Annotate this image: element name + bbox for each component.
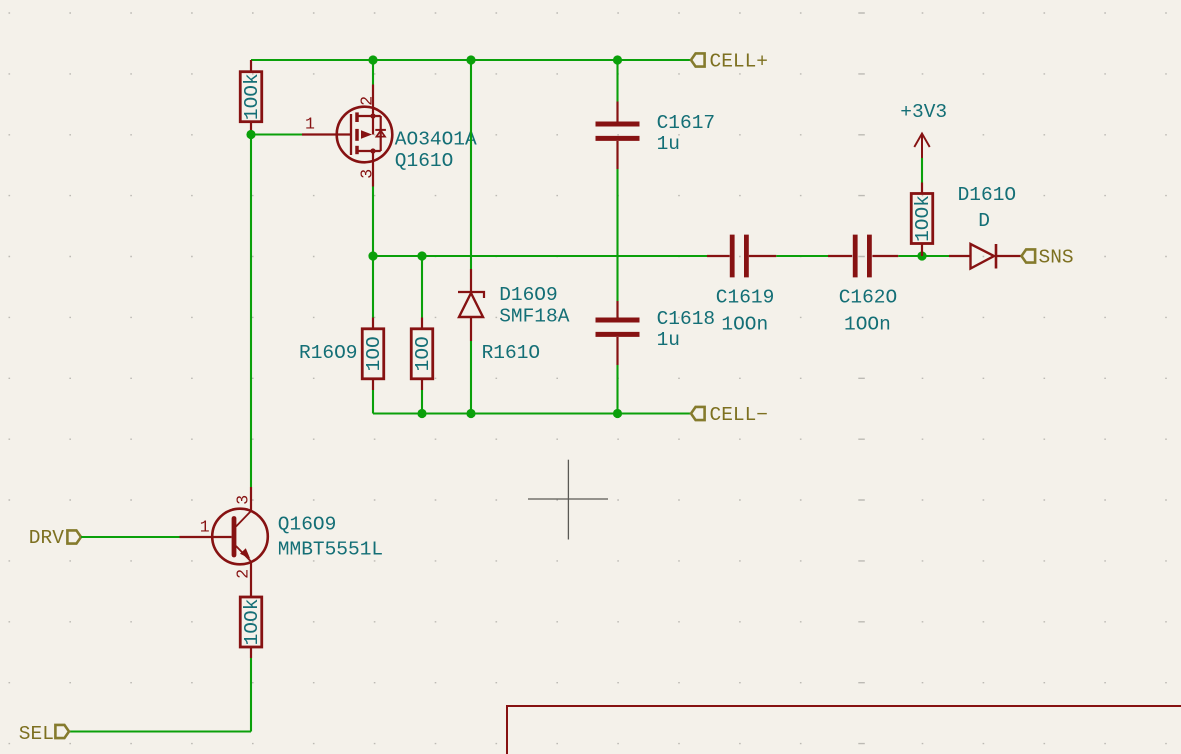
svg-text:+3V3: +3V3 (900, 101, 947, 123)
junction CELL- / D1609 (466, 409, 475, 418)
svg-text:SEL: SEL (19, 723, 54, 745)
pin 2 wire Q1609 (250, 563, 252, 597)
junction top rail / D1609 (466, 55, 475, 64)
svg-text:CELL−: CELL− (710, 404, 769, 426)
svg-text:Q16O9: Q16O9 (278, 514, 337, 536)
pin R1610 bottom (421, 379, 423, 390)
svg-text:1OOk: 1OOk (241, 73, 263, 120)
wire top rail to Q1610 S (372, 60, 374, 85)
pin C1619 left (707, 255, 730, 257)
diode D1609 SMF18A (zener) (458, 292, 484, 317)
cursor crosshair (528, 460, 608, 540)
capacitor C1617 1u (596, 124, 640, 138)
svg-text:AO34O1A: AO34O1A (395, 129, 477, 151)
wire R1609 top (372, 256, 374, 318)
svg-text:3: 3 (358, 169, 377, 179)
pin C1619 right (749, 255, 777, 257)
wire mid rail (373, 255, 707, 257)
pin R 100k top (250, 60, 252, 73)
svg-text:1u: 1u (657, 329, 680, 351)
capacitor C1620 100n (855, 235, 869, 278)
resistor R1609 100 (362, 329, 385, 379)
hier label SNS (1022, 247, 1074, 269)
svg-text:CELL+: CELL+ (710, 51, 769, 73)
power symbol +3V3 (900, 101, 947, 158)
svg-text:3: 3 (233, 495, 252, 505)
capacitor C1618 1u (596, 320, 640, 334)
wire +3V3 to 100k (921, 158, 923, 183)
resistor 100k (emitter) (240, 597, 263, 647)
svg-text:1OOk: 1OOk (241, 599, 263, 646)
wire C1619 to C1620 (776, 255, 828, 257)
svg-text:1u: 1u (657, 133, 680, 155)
pin 3 wire Q1609 (250, 487, 252, 510)
pin R 100k bottom (250, 122, 252, 131)
transistor Q1610 AO3401A (P-MOSFET) (302, 107, 392, 163)
svg-text:1OOn: 1OOn (721, 313, 768, 335)
junction CELL- / R1610 (417, 409, 426, 418)
pin C1620 right (872, 255, 898, 257)
svg-text:C1619: C1619 (716, 286, 775, 308)
pin 3 wire Q1610 (372, 151, 374, 187)
svg-text:C162O: C162O (839, 286, 898, 308)
svg-text:R161O: R161O (482, 342, 541, 364)
pin C1617 bottom (616, 141, 618, 169)
svg-text:2: 2 (358, 96, 377, 106)
pin C1620 left (828, 255, 852, 257)
wire Q1610 D to mid rail (372, 187, 374, 257)
pin R1610 top (421, 318, 423, 330)
pin D1610 cathode (996, 255, 1022, 257)
resistor R1610 100 (411, 329, 434, 379)
wire gate (251, 133, 302, 135)
capacitor C1619 100n (732, 235, 746, 278)
junction mid rail / R1609 (368, 251, 377, 260)
svg-text:1OOn: 1OOn (844, 313, 891, 335)
svg-text:C1618: C1618 (657, 308, 716, 330)
wire DRV to Q1609 base (81, 536, 180, 538)
pin 2 wire Q1610 (372, 85, 374, 114)
pin 100k bottom (921, 244, 923, 257)
wire SEL horizontal (69, 730, 251, 732)
svg-text:MMBT5551L: MMBT5551L (278, 539, 383, 561)
svg-text:C1617: C1617 (657, 112, 716, 134)
junction gate node (246, 130, 255, 139)
transistor Q1609 MMBT5551L (NPN) (212, 509, 268, 565)
pin 1 wire Q1609 (180, 536, 232, 538)
wire C1618 to CELL- rail (616, 365, 618, 414)
pin 100k top (921, 183, 923, 195)
junction CELL- / C1618 (613, 409, 622, 418)
wire CELL+ top rail (251, 59, 691, 61)
pin R1609 bottom (372, 379, 374, 390)
svg-text:1OO: 1OO (412, 336, 434, 371)
wire C1620 to D1610 (898, 255, 949, 257)
hier label DRV (29, 527, 81, 549)
wire top rail to C1617 (616, 60, 618, 102)
svg-text:R16O9: R16O9 (299, 342, 358, 364)
svg-text:2: 2 (233, 569, 252, 579)
wire emitter R to SEL corner (250, 658, 252, 732)
hier label SEL (19, 723, 69, 745)
resistor 100k (top left) (240, 72, 263, 122)
svg-text:D16O9: D16O9 (499, 284, 558, 306)
wire C1617 to C1618 (616, 169, 618, 301)
wire D1609 to CELL- rail (470, 341, 472, 414)
pin D1609 anode (470, 317, 472, 341)
pin R1609 top (372, 318, 374, 330)
svg-text:D161O: D161O (958, 184, 1017, 206)
pin D1610 anode (949, 255, 971, 257)
pin C1617 top (616, 102, 618, 122)
svg-text:DRV: DRV (29, 527, 64, 549)
svg-text:Q161O: Q161O (395, 150, 454, 172)
svg-text:1: 1 (200, 518, 210, 537)
pin C1618 bottom (616, 337, 618, 365)
wire CELL- rail (373, 412, 691, 414)
wire R1610 top (421, 256, 423, 318)
junction mid rail / R1610 (417, 251, 426, 260)
svg-text:1OOk: 1OOk (912, 195, 934, 242)
svg-text:SMF18A: SMF18A (499, 306, 570, 328)
diode D1610 (971, 244, 997, 269)
junction SNS node / 100k (917, 251, 926, 260)
resistor 100k (pullup) (911, 194, 934, 244)
svg-text:1: 1 (305, 115, 315, 134)
sheet outline (bottom right) (507, 706, 1181, 754)
junction top rail / Q1610 (368, 55, 377, 64)
wire R1610 bottom (421, 390, 423, 414)
svg-text:D: D (978, 210, 990, 232)
hier label CELL- (691, 404, 768, 426)
pin C1618 top (616, 301, 618, 318)
wire left column vertical (250, 131, 252, 487)
junction top rail / C1617 (613, 55, 622, 64)
pin emitter R bottom (250, 647, 252, 658)
svg-text:1OO: 1OO (363, 336, 385, 371)
wire R1609 bottom (372, 390, 374, 414)
wire CELL+ to D1609 (470, 60, 472, 269)
hier label CELL+ (691, 51, 768, 73)
pin D1609 cathode (470, 269, 472, 292)
svg-text:SNS: SNS (1039, 247, 1074, 269)
